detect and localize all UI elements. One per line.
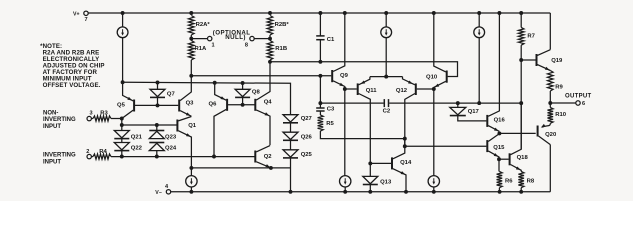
transistor Q2 (NPN) [254, 151, 256, 163]
diode Q7 [157, 83, 159, 90]
junction: R7 bottom / Q19 base [519, 58, 523, 62]
svg-text:Q18: Q18 [517, 155, 529, 161]
junction: Q23 top [155, 123, 159, 127]
current source I1 [117, 27, 128, 38]
offset null terminal pin 8 [250, 36, 254, 40]
resistor R3 [91, 118, 93, 120]
svg-text:R1B: R1B [275, 46, 287, 52]
junction: C1 bottom [318, 60, 322, 64]
svg-text:R6: R6 [505, 179, 513, 185]
capacitor C1 [319, 13, 321, 36]
resistor R1B [267, 41, 273, 61]
wire: Q2 base line [111, 156, 255, 158]
resistor R4 [91, 156, 93, 158]
transistor Q14 (NPN) [391, 157, 393, 169]
svg-text:INVERTING: INVERTING [43, 117, 76, 123]
svg-text:INVERTING: INVERTING [43, 153, 76, 159]
wire: input node down to Q1 base line [121, 119, 123, 126]
junction: Q8 bottom [241, 103, 245, 107]
transistor Q16 (NPN) [486, 115, 488, 127]
svg-text:R9: R9 [555, 85, 563, 91]
junction: R3 / Q5 collector [120, 117, 124, 121]
resistor R8 [518, 172, 524, 188]
junction: Q2 emitter [269, 166, 273, 170]
wire: R1B node to Q10 base (via C1 bottom) [270, 62, 458, 77]
transistor Q11 (PNP) [345, 88, 357, 90]
input terminal pin 3 [87, 116, 91, 120]
wire: Q27 to Q26 [290, 123, 292, 132]
transistor Q5 (PNP) [133, 100, 135, 112]
svg-text:C2: C2 [383, 109, 391, 115]
transistor Q10 (NPN) [446, 71, 448, 83]
svg-text:Q24: Q24 [165, 146, 177, 152]
junction: R5 line at Q12 collector [403, 137, 407, 141]
current source I4 [474, 27, 485, 38]
junction: I2 tee [384, 75, 388, 79]
svg-text:8: 8 [245, 42, 248, 48]
wire: input pair tail line [191, 167, 290, 169]
junction: clamp top left [120, 123, 124, 127]
junction on V+ rail x=386.2 [384, 11, 388, 15]
svg-text:Q3: Q3 [186, 100, 195, 106]
wire: R1B down to Q4 collector [256, 60, 270, 100]
wire: Q11 collector to Q13/Q14 base [370, 162, 391, 164]
svg-text:3: 3 [89, 110, 92, 116]
diode Q8 [242, 83, 244, 89]
svg-text:Q2: Q2 [264, 154, 273, 160]
svg-text:NON-: NON- [43, 111, 58, 117]
wire: Q15 emitter to Q18 base [499, 158, 509, 160]
wire: I4 down to Q17 line [478, 38, 480, 103]
diode Q21 [121, 125, 123, 131]
svg-text:Q16: Q16 [494, 118, 506, 124]
svg-text:INPUT: INPUT [43, 159, 61, 165]
junction on V+ rail x=479.2 [477, 11, 481, 15]
junction: clamp bottom left [120, 155, 124, 159]
diode Q23 [156, 125, 158, 131]
wire: Q6/Q4 base line [228, 104, 255, 106]
svg-text:Q7: Q7 [167, 92, 176, 98]
junction: Q1 emitter / I6 top [189, 166, 193, 170]
svg-text:V−: V− [155, 190, 162, 196]
junction: long line end at Q18 column [519, 101, 523, 105]
wire: Q5/Q3 base line [135, 104, 178, 106]
svg-text:R8: R8 [527, 179, 535, 185]
junction on V- rail x=433.8 [432, 190, 436, 194]
junction on V- rail x=406 [404, 190, 408, 194]
svg-text:R3: R3 [100, 110, 108, 116]
current source I5 [428, 176, 439, 187]
svg-text:Q27: Q27 [301, 116, 313, 122]
output terminal pin 6 [576, 101, 580, 105]
junction: I4 bottom [477, 101, 481, 105]
resistor R6 [498, 159, 500, 171]
wire: V+ top rail [88, 12, 550, 14]
junction: Q11 base tap [343, 87, 347, 91]
wire: R2B to R1B [269, 35, 271, 41]
transistor Q4 (NPN) [254, 99, 256, 111]
resistor R2B [267, 16, 273, 36]
junction on V+ rail x=344.8 [343, 11, 347, 15]
junction: I1 / Q5 collector [121, 80, 125, 84]
transistor Q20 (PNP) [537, 126, 539, 137]
wire: Q1 base line [122, 124, 177, 126]
junction on V+ rail x=320.4 [318, 11, 322, 15]
svg-text:Q17: Q17 [468, 109, 480, 115]
resistor R2A [189, 16, 195, 36]
svg-text:OFFSET VOLTAGE.: OFFSET VOLTAGE. [43, 82, 101, 89]
transistor Q6 (PNP) [226, 99, 228, 111]
junction: C2 line tap [318, 101, 322, 105]
junction: null tap A [189, 37, 193, 41]
wire: top rail corner down to Q19 collector [549, 13, 551, 50]
offset null terminal pin 1 [208, 36, 212, 40]
svg-text:R7: R7 [527, 34, 535, 40]
transistor Q1 (NPN) [176, 120, 178, 132]
svg-text:R10: R10 [555, 112, 567, 118]
resistor R5 [318, 115, 324, 131]
diode Q24 [149, 142, 164, 144]
junction on V- rail x=499.6 [498, 190, 502, 194]
svg-text:C1: C1 [327, 37, 335, 43]
svg-text:R4: R4 [99, 149, 107, 155]
wire: I2 emitter tee line [370, 76, 403, 78]
wire: null tap to pin 8 [254, 38, 270, 40]
current source I2 [381, 27, 392, 38]
transistor Q9 (NPN) [331, 70, 333, 82]
junction on V- rail x=191.4 [189, 190, 193, 194]
junction: Q17 top [456, 101, 460, 105]
svg-text:Q20: Q20 [545, 132, 557, 138]
transistor Q18 (NPN) [509, 153, 511, 165]
capacitor C3 [316, 107, 324, 109]
junction: Q8 top [241, 81, 245, 85]
svg-text:R2B*: R2B* [275, 22, 290, 28]
svg-text:Q23: Q23 [165, 134, 177, 140]
svg-text:6: 6 [582, 101, 585, 107]
wire: V- bottom rail [171, 191, 551, 193]
wire: null tap to pin 1 [191, 38, 207, 40]
svg-text:Q8: Q8 [252, 89, 261, 95]
wire: R2A to R1A [190, 35, 192, 41]
junction on V- rail x=370.3 [368, 190, 372, 194]
svg-text:Q4: Q4 [264, 100, 273, 106]
diode Q27 [283, 115, 298, 122]
junction on V+ rail x=270 [268, 11, 272, 15]
wire: bias line from I1 across to clamp stack [123, 82, 291, 115]
current source I1 wire from rail [122, 13, 124, 27]
junction on V+ rail x=122.6 [121, 11, 125, 15]
junction: Q15 emitter / Q18 base / R6 [497, 157, 501, 161]
svg-text:7: 7 [84, 17, 87, 23]
current source I6 (tail) [190, 168, 192, 176]
junction on V- rail x=521.2 [519, 190, 523, 194]
junction: Q6 emitter on bias line [213, 81, 217, 85]
V- terminal (pin 4) [166, 190, 170, 194]
svg-text:INPUT: INPUT [43, 124, 61, 130]
junction: C3 column top [318, 74, 322, 78]
junction: Q13 top / Q14 base [368, 161, 372, 165]
wire: bottom rail corner up to Q20 collector [549, 145, 551, 192]
resistor R7 [520, 13, 522, 27]
svg-text:Q11: Q11 [366, 88, 378, 94]
junction: Q16 emitter / Q15 collector [497, 131, 501, 135]
svg-text:Q6: Q6 [209, 101, 218, 107]
svg-text:V+: V+ [73, 12, 80, 18]
wire: output stub [550, 102, 576, 104]
wire: Q16 emitter node to Q20 base [499, 132, 535, 134]
current source I4 wire from rail [478, 13, 480, 27]
svg-text:Q12: Q12 [396, 88, 408, 94]
transistor Q12 (PNP) [415, 83, 417, 95]
capacitor C2 [320, 102, 383, 104]
wire: Q25 down to V- rail [290, 158, 292, 192]
wire: R5 bottom to Q12/Q14 collector node [320, 131, 404, 139]
junction: R1A / Q9 base line [189, 74, 193, 78]
junction: Q7 top [156, 81, 160, 85]
svg-text:Q13: Q13 [380, 180, 392, 186]
diode Q25 [283, 150, 298, 157]
svg-text:1: 1 [211, 42, 214, 48]
resistor R1A [189, 41, 195, 61]
svg-text:Q14: Q14 [400, 160, 412, 166]
junction: output node [548, 101, 552, 105]
wire: Q14 collector to Q15 base [405, 145, 487, 147]
svg-text:C3: C3 [327, 107, 335, 113]
svg-text:R2A*: R2A* [196, 22, 211, 28]
junction: null tap B [268, 37, 272, 41]
svg-text:Q19: Q19 [551, 58, 563, 64]
svg-text:Q25: Q25 [301, 152, 313, 158]
svg-text:Q10: Q10 [426, 74, 438, 80]
transistor Q15 (NPN) [486, 140, 488, 152]
svg-text:NULL): NULL) [225, 34, 246, 41]
wire: Q26 to Q25 [290, 140, 292, 150]
junction: R1B / Q10 base line [268, 60, 272, 64]
transistor Q3 (NPN) [178, 100, 180, 112]
junction on V+ rail x=521.2 [519, 11, 523, 15]
diode Q26 [283, 132, 298, 139]
svg-text:Q9: Q9 [340, 73, 349, 79]
svg-text:Q21: Q21 [131, 134, 143, 140]
diode Q13 [369, 163, 371, 176]
svg-text:Q15: Q15 [493, 145, 505, 151]
transistor Q19 (NPN) [521, 59, 535, 61]
svg-text:2: 2 [86, 149, 89, 155]
svg-text:OUTPUT: OUTPUT [565, 93, 591, 99]
junction: Q6 collector on base line [212, 155, 216, 159]
resistor R9 [548, 71, 554, 92]
wire: R1A down to line and Q3 collector [180, 60, 191, 101]
current source I2 wire from rail [385, 13, 387, 27]
svg-text:Q26: Q26 [301, 134, 313, 140]
svg-text:Q1: Q1 [188, 123, 197, 129]
junction on V- rail x=290.5 [289, 190, 293, 194]
diode Q17 [457, 103, 459, 107]
current source I3 [340, 176, 351, 187]
svg-text:R1A: R1A [195, 46, 208, 52]
junction on V+ rail x=433.8 [432, 11, 436, 15]
svg-text:Q5: Q5 [117, 102, 126, 108]
diode Q22 [121, 139, 123, 143]
junction: Q7 bottom on base line [156, 103, 160, 107]
svg-text:Q22: Q22 [131, 146, 143, 152]
V+ terminal (pin 7) [84, 11, 88, 15]
input terminal pin 2 [87, 154, 91, 158]
junction: Q14 collector [403, 144, 407, 148]
wire: Q9 base node down to C3 [319, 76, 321, 108]
junction: clamp bottom right [155, 155, 159, 159]
resistor R10 [549, 103, 551, 108]
junction on V- rail x=345.2 [343, 190, 347, 194]
wire: R1A node to Q9 base [191, 75, 331, 77]
junction on V+ rail x=191.3 [189, 11, 193, 15]
svg-text:R5: R5 [326, 121, 334, 127]
wire: I2 down to Q11/Q12 emitter tee [385, 38, 387, 77]
junction on V+ rail x=499.4 [497, 11, 501, 15]
junction: Q12 base / Q10 emitter [432, 87, 436, 91]
wire: I1 to Q5 collector node [122, 38, 124, 82]
